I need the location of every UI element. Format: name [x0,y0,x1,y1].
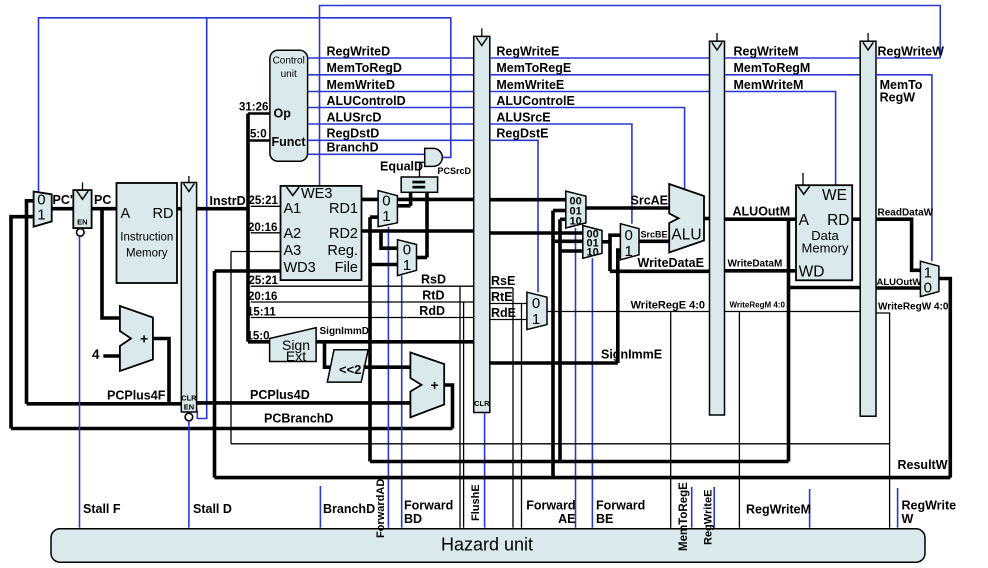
wire RsD tap to hazard [459,286,461,528]
svg-text:BranchD: BranchD [323,502,375,516]
svg-text:1: 1 [37,207,45,224]
wire PCPlus4F adder output down [153,339,169,404]
svg-text:Control: Control [273,56,305,67]
svg-text:RegWrite: RegWrite [902,499,957,513]
wire PCBranchD [11,427,453,431]
wire InstrD field vertical [246,114,250,342]
wire WriteRegW 4:0 [876,313,890,528]
svg-text:RtD: RtD [422,288,444,302]
svg-text:PC': PC' [53,193,73,207]
svg-text:RegW: RegW [880,91,916,105]
wire RdD [251,317,474,319]
svg-text:+: + [140,331,148,347]
svg-text:WE3: WE3 [301,186,332,202]
svg-text:PCSrcD: PCSrcD [438,166,472,176]
svg-text:0: 0 [382,193,390,210]
svg-text:Forward: Forward [404,499,453,513]
wire BranchD [308,153,425,155]
wire WriteRegM 4:0 [725,311,861,313]
wire SrcAE [586,206,669,210]
svg-text:0: 0 [403,242,411,259]
svg-text:25:21: 25:21 [249,275,279,287]
wire comparator right leg [425,192,429,257]
svg-text:1: 1 [532,311,540,328]
svg-text:File: File [335,260,358,276]
wire ALUOutM to WriteData mux input 10 [560,249,583,253]
wire 25:21 to A1 [251,205,281,207]
wire PCPlus4F [27,402,182,406]
register EX/MEM [710,33,725,415]
svg-text:MemToRegE: MemToRegE [496,61,571,75]
svg-text:PCPlus4F: PCPlus4F [107,389,166,403]
wire WriteDataE [610,269,710,273]
svg-text:Forward: Forward [596,499,645,513]
svg-text:ALUOutM: ALUOutM [733,204,791,218]
svg-text:RegDstE: RegDstE [496,127,548,141]
wire ALUOut to MEM/WB [789,286,861,290]
wire RegWriteE [490,57,710,59]
wire mux D2 output to comparator [417,256,428,260]
svg-text:WE: WE [822,187,847,204]
wire PC bus to instruction memory [92,207,117,211]
wire mux D2 input 1 [370,263,398,267]
svg-text:ALUOutW: ALUOutW [877,277,922,288]
wire comparator left leg [409,192,413,206]
adder branch target [410,353,444,418]
control unit [270,50,308,161]
svg-text:0: 0 [532,295,540,312]
svg-text:SrcAE: SrcAE [631,193,669,207]
register file [281,186,362,280]
and-gate PCSrcD [425,148,443,166]
wire MemToRegE stub [691,487,693,528]
svg-text:31:26: 31:26 [239,102,268,114]
wire ForwardAD [387,227,389,528]
wire mux D1 input 1 [370,215,378,219]
wire StallF [79,236,81,527]
svg-text:ALU: ALU [671,227,701,244]
svg-text:ALUControlE: ALUControlE [496,94,574,108]
wire ALUOutM feed vertical [558,219,562,461]
sign extend [270,328,317,364]
svg-text:4: 4 [92,347,100,362]
svg-text:10: 10 [570,215,582,227]
svg-text:ALUSrcD: ALUSrcD [327,110,382,124]
wire RtD tap to hazard [463,302,465,528]
svg-text:Ext: Ext [286,348,306,364]
svg-text:Forward: Forward [526,499,575,513]
wire Funct field 5:0 [248,139,270,142]
wire PCPlus4F to mux input 0 [27,201,34,404]
svg-text:CLR: CLR [474,399,490,408]
mux branch forward B (0/1) [398,240,417,276]
wire MemToRegW [876,75,932,261]
svg-text:unit: unit [281,69,297,80]
svg-text:MemWriteD: MemWriteD [327,78,396,92]
adder PC+4 [120,306,153,371]
wire MemToRegD [308,74,474,76]
svg-text:RD: RD [153,206,174,222]
svg-text:WD: WD [799,264,825,281]
svg-text:BD: BD [404,512,422,526]
svg-text:SrcBE: SrcBE [641,229,668,239]
svg-text:Reg.: Reg. [327,243,358,259]
svg-text:WriteRegM 4:0: WriteRegM 4:0 [730,301,786,310]
wire RsD [251,285,474,287]
svg-text:5:0: 5:0 [250,129,267,141]
svg-text:RsD: RsD [421,272,446,286]
wire 20:16 to A2 [251,232,281,234]
wire RsE tap to hazard [512,288,514,528]
wire RD2 tap to mux D2 input 0 [381,231,398,248]
register PC (with EN) [73,182,91,236]
svg-text:ReadDataW: ReadDataW [878,207,934,218]
comparator equality [401,177,437,192]
svg-text:RD: RD [827,212,849,229]
svg-text:MemWriteE: MemWriteE [496,78,564,92]
wire WriteRegM tap to hazard [738,312,740,528]
register ID/EX (CLR) [474,28,490,412]
svg-text:PCPlus4D: PCPlus4D [250,388,310,402]
svg-text:Funct: Funct [272,135,307,149]
svg-text:RegWriteE: RegWriteE [703,490,715,545]
wire RD2 bus [362,229,474,233]
wire WriteRegW return to A3 [231,443,890,445]
svg-text:WriteDataE: WriteDataE [638,256,704,270]
wire SignImmE up to SrcB mux input 1 [618,250,621,363]
wire 15:0 to sign extend [248,340,270,344]
svg-text:ALUControlD: ALUControlD [327,94,406,108]
mux PC source (0/1) [34,192,52,227]
wire WriteData mux output [602,240,610,244]
svg-text:CLR: CLR [181,394,197,403]
wire RegWriteW [876,57,940,59]
svg-text:RegWriteM: RegWriteM [746,503,811,517]
wire ALUOutM tap down [787,219,791,461]
svg-text:ForwardAD: ForwardAD [375,479,387,538]
svg-text:PCBranchD: PCBranchD [264,412,333,426]
wire RegDstE [490,140,538,292]
wire MemWriteM to DM WE [725,92,836,186]
svg-text:1: 1 [382,208,390,225]
svg-text:10: 10 [587,246,599,258]
register MEM/WB [860,33,876,416]
wire ForwardAE [575,228,577,528]
svg-text:FlushE: FlushE [470,484,482,521]
alu ALU [669,184,704,253]
wire RD1 bus [362,198,474,202]
svg-text:AE: AE [558,512,575,526]
wire ALUSrcD [308,123,474,125]
wire RD1 to SrcA mux [490,198,566,202]
svg-text:MemToRegD: MemToRegD [327,61,402,75]
svg-text:A3: A3 [284,243,302,259]
wire ResultW [215,476,951,480]
wire BranchD stub to hazard [319,486,321,528]
svg-text:WriteRegE 4:0: WriteRegE 4:0 [631,299,705,311]
wire PCPlus4D [197,401,411,405]
svg-text:InstrD: InstrD [210,194,246,208]
svg-text:Hazard unit: Hazard unit [441,534,533,554]
hazard unit [51,529,925,562]
wire ALUSrcE [490,124,632,224]
svg-text:Memory: Memory [802,241,849,256]
mux SrcBE (0/1) [620,224,639,260]
svg-text:RegDstD: RegDstD [327,127,380,141]
svg-text:PC: PC [94,193,111,207]
svg-text:RsE: RsE [491,274,515,288]
wire to SrcB mux input 0 [610,235,620,271]
svg-text:WriteRegW 4:0: WriteRegW 4:0 [878,302,949,313]
wire RsE [490,287,513,289]
svg-text:Stall D: Stall D [193,502,232,516]
svg-text:A1: A1 [284,201,302,217]
wire branch adder output [444,385,452,429]
wire ALUOutM to SrcA mux input 10 [560,218,566,222]
wire WriteRegE 4:0 [547,311,710,313]
wire PC tap down to +4 adder [102,209,120,318]
svg-text:20:16: 20:16 [248,291,277,303]
wire SignImmE [490,361,618,365]
mux SrcAE forward (00/01/10) [566,191,586,228]
wire SignImmD [316,340,474,344]
instruction memory [117,183,178,283]
svg-text:ResultW: ResultW [898,458,948,472]
svg-text:RegWriteE: RegWriteE [496,44,559,58]
svg-text:RdE: RdE [491,306,516,320]
wire PCSrcD branch to IF/ID CLR [197,18,206,419]
wire mux D1 output to comparator [397,204,410,208]
svg-text:W: W [902,512,914,526]
svg-text:RegWriteD: RegWriteD [327,44,391,58]
wire ForwardBD [401,276,403,528]
svg-text:SignImmE: SignImmE [601,347,662,361]
svg-text:RD1: RD1 [329,201,358,217]
wire RegWriteW loop to register file WE3 [320,6,941,186]
wire IM RD to IF/ID [177,207,181,211]
svg-text:0: 0 [625,227,633,244]
wire MemToRegM [725,74,861,76]
svg-text:0: 0 [924,280,932,297]
wire MemWriteE [490,91,710,93]
wire WriteRegW vertical to A3 [230,252,232,444]
shifter left-shift-2 [327,350,368,382]
wire RtE [490,303,527,305]
svg-text:15:11: 15:11 [247,306,276,318]
svg-text:A2: A2 [284,226,302,242]
wire shifter output to branch adder [364,365,411,369]
wire ALUOutW [876,286,920,290]
wire PC mux output to PC register [52,207,74,211]
svg-text:A: A [121,206,131,222]
wire RegWriteM [725,57,861,59]
svg-text:ALUSrcE: ALUSrcE [496,110,550,124]
wire RegWriteW stub [897,488,899,528]
wire WriteRegE tap to hazard [670,312,672,528]
wire ResultW vertical up [213,271,217,478]
svg-text:A: A [799,212,810,229]
mux WriteDataE forward (00/01/10) [583,226,602,259]
svg-text:Op: Op [274,107,292,121]
wire InstrD [197,207,250,211]
wire A3 from WriteRegW [231,251,281,253]
wire ResultW to WriteData mux input 01 [553,240,583,244]
wire ALUControlE [490,108,685,190]
mux WriteRegE RegDst (0/1) [527,292,547,329]
wire RegWriteD [308,57,474,59]
wire MemWriteD [308,91,474,93]
svg-text:MemToRegE: MemToRegE [678,482,690,551]
svg-text:<<2: <<2 [339,362,361,377]
wire ALUControlD [308,107,474,109]
svg-text:RegWriteM: RegWriteM [734,44,799,58]
wire WriteDataM [725,269,797,273]
svg-text:20:16: 20:16 [248,222,277,234]
svg-text:25:21: 25:21 [249,195,279,207]
wire RD2 to WriteData mux [490,231,583,235]
wire PCSrcD loop to PC mux select and IF/ID CLR [39,18,451,192]
svg-text:Stall F: Stall F [83,502,121,516]
wire WD3 from ResultW [215,269,281,273]
wire RtD [251,301,474,303]
wire MemToRegE [490,74,710,76]
svg-text:RD2: RD2 [329,226,358,242]
svg-text:MemWriteM: MemWriteM [734,78,804,92]
wire ResultW to SrcA mux input 01 [553,209,566,213]
data memory [796,173,852,281]
wire ResultW feed vertical [551,211,555,478]
wire ForwardBE [591,258,593,527]
wire RegDstD [308,139,474,141]
wire SrcBE to ALU [639,240,669,244]
wire Op field 31:26 [248,112,270,115]
wire SignImmD tap to shifter [325,342,333,367]
svg-text:MemToRegM: MemToRegM [734,61,811,75]
svg-text:RtE: RtE [491,290,513,304]
svg-text:+: + [431,377,439,393]
svg-text:WD3: WD3 [284,260,316,276]
svg-text:Instruction: Instruction [120,232,173,244]
wire ResultW from mux [939,279,950,478]
wire ALUOutM [725,217,797,221]
wire RegWriteE stub [713,487,715,528]
wire RtE tap to hazard [521,304,523,528]
wire constant 4 to adder [103,354,120,358]
svg-text:EN: EN [184,403,194,412]
mux branch forward A (0/1) [378,191,397,227]
svg-text:1: 1 [625,243,633,260]
register IF/ID (CLR EN) [181,176,197,421]
svg-text:1: 1 [403,257,411,274]
mux ResultW MemToReg (1/0) [920,261,939,296]
wire EqualD to AND [420,162,425,177]
wire ALUOutM forwarding line [370,460,789,464]
svg-text:Memory: Memory [126,248,168,260]
wire RdE [490,319,527,321]
wire ALU output [704,217,710,221]
svg-text:RegWriteW: RegWriteW [878,44,945,58]
svg-text:RdD: RdD [419,304,445,318]
wire PCBranchD to mux input 1 [11,217,34,429]
svg-text:BE: BE [596,512,613,526]
svg-text:EN: EN [77,218,87,227]
svg-text:EqualD: EqualD [380,160,423,174]
wire FlushE [484,413,486,528]
svg-text:15:0: 15:0 [247,330,270,342]
svg-text:SignImmD: SignImmD [320,326,369,337]
wire ALUOutM forward vertical [368,217,372,461]
svg-text:WriteDataM: WriteDataM [728,259,783,270]
svg-text:BranchD: BranchD [327,141,379,155]
wire ReadDataW [852,217,860,221]
wire StallD [188,421,190,528]
wire RegWriteM stub [809,489,811,528]
